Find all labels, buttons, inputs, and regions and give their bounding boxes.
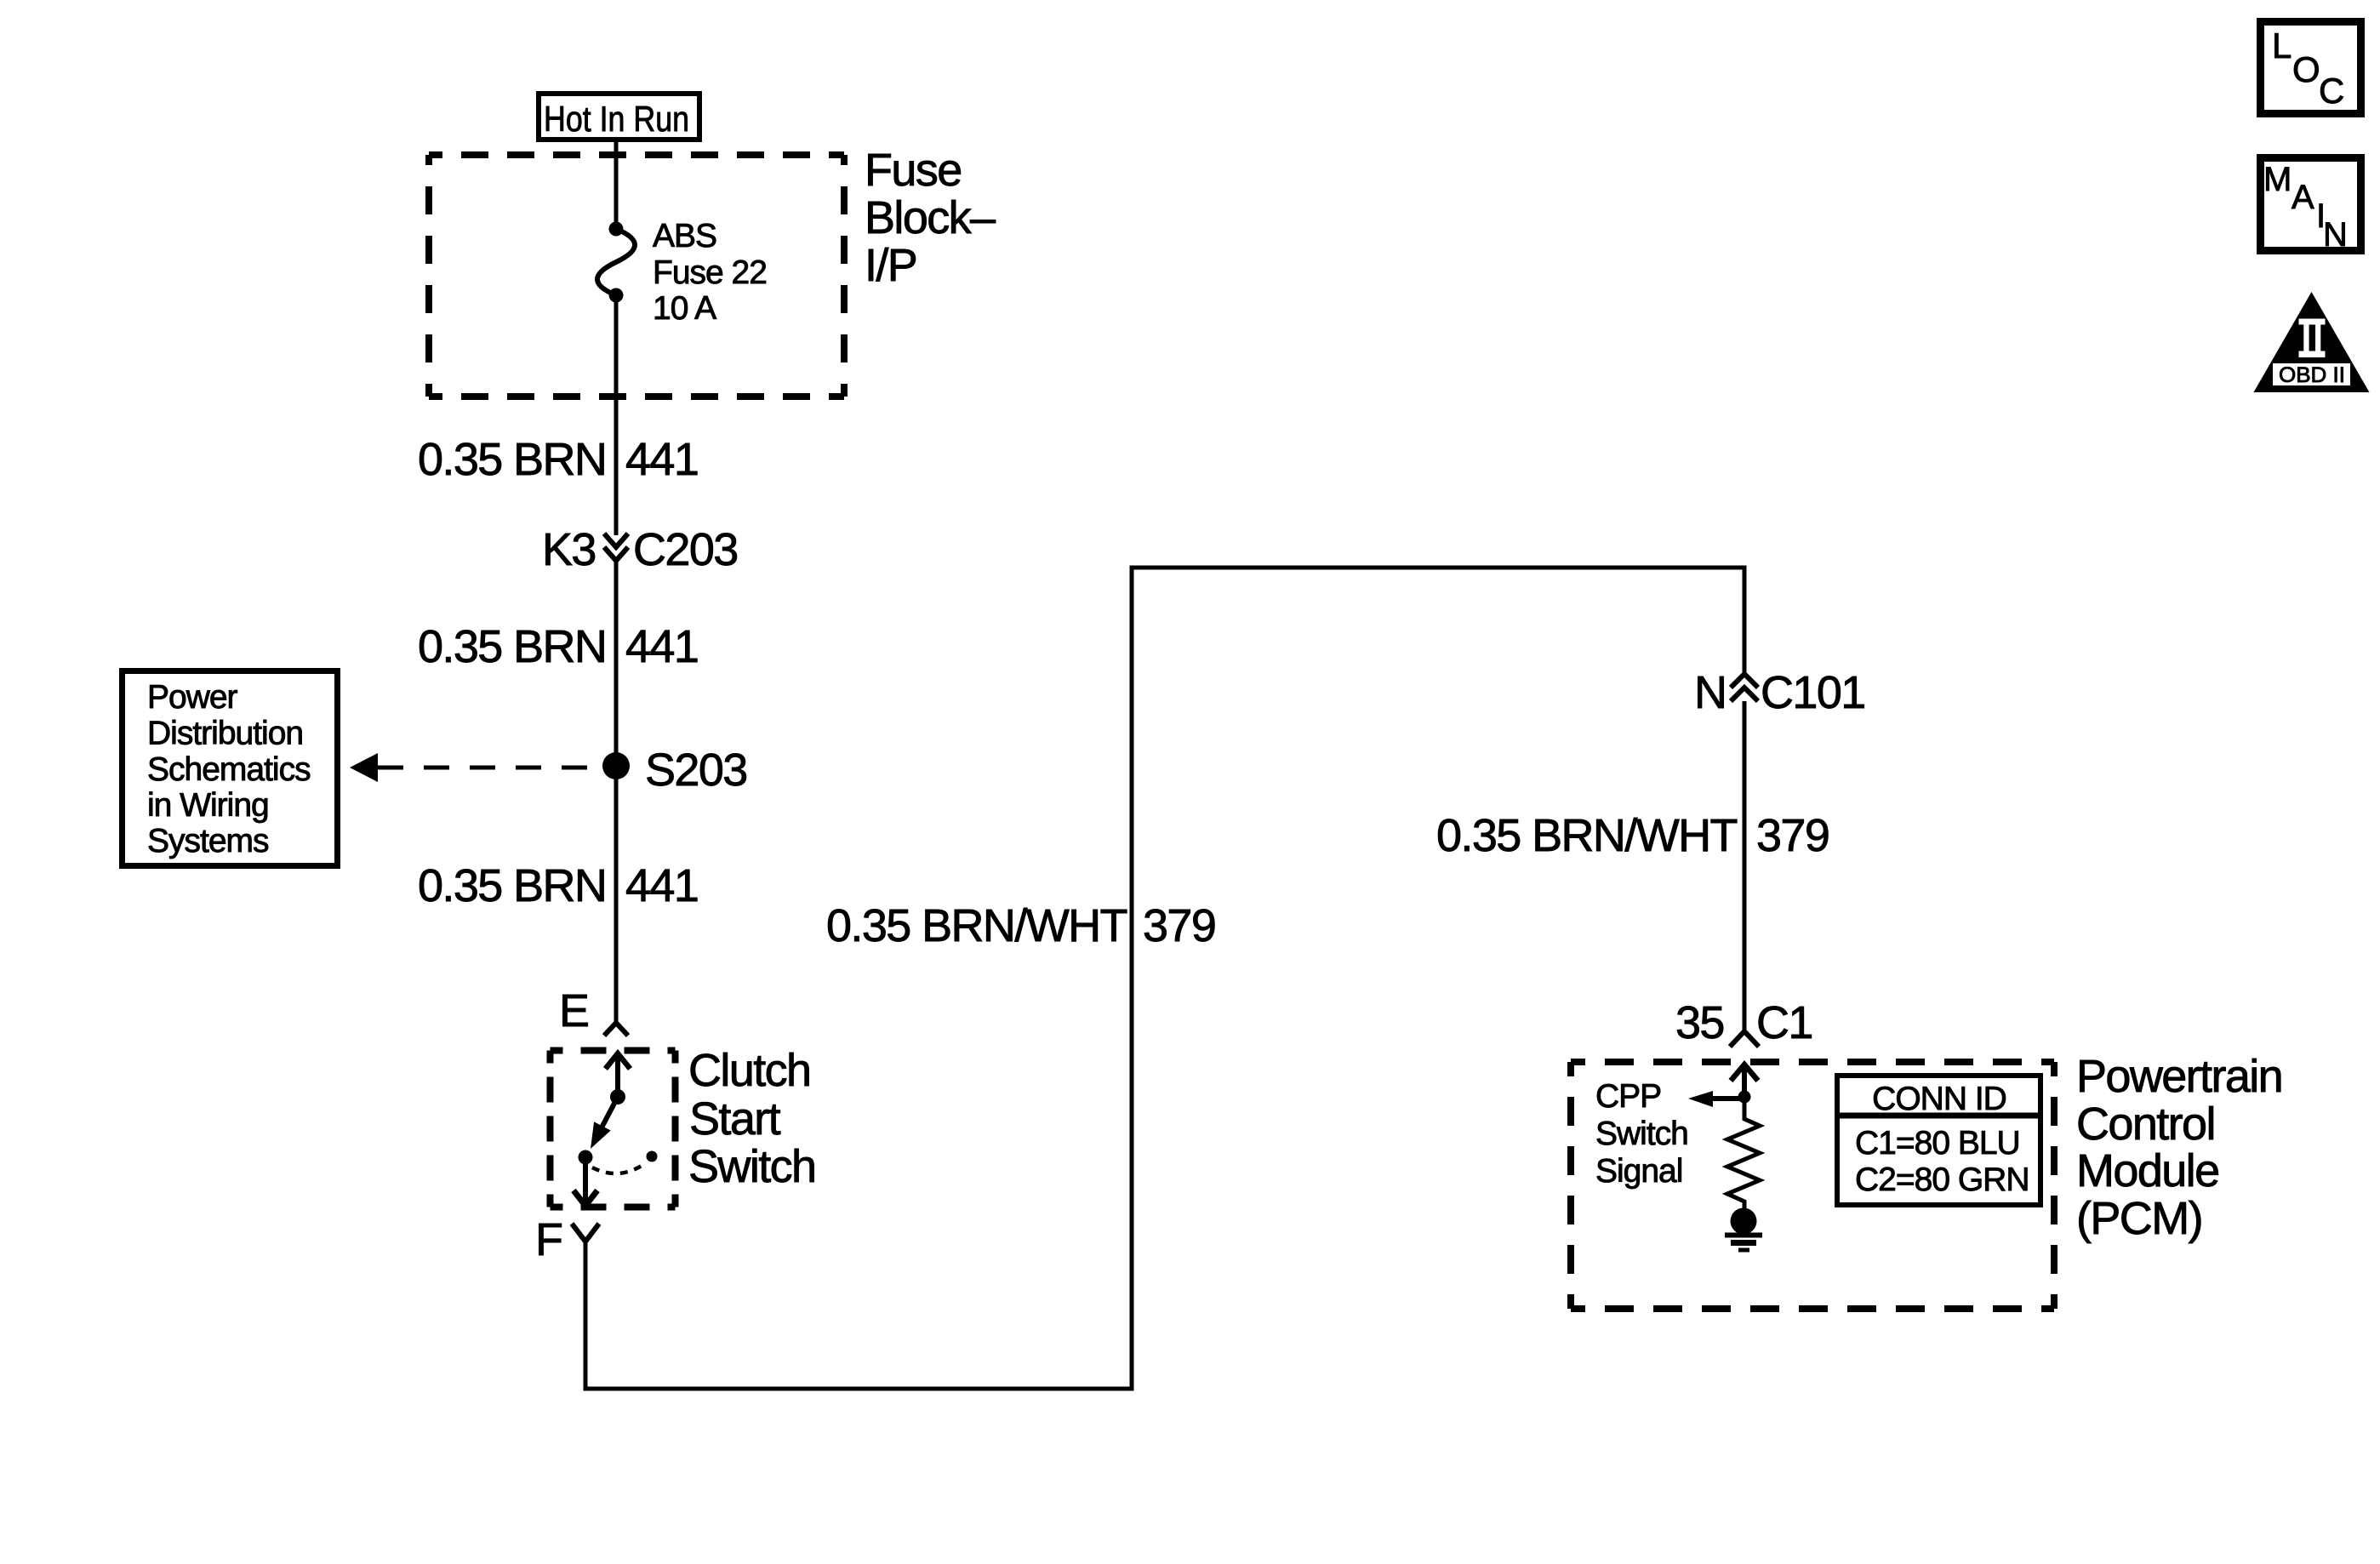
svg-text:0.35 BRN/WHT: 0.35 BRN/WHT bbox=[826, 900, 1127, 951]
ground terminal dot bbox=[1731, 1208, 1757, 1235]
fuse F22 terminal dot top bbox=[609, 222, 624, 237]
MAIN icon box bbox=[2261, 158, 2361, 251]
svg-text:10 A: 10 A bbox=[653, 290, 716, 327]
svg-text:Distribution: Distribution bbox=[147, 716, 303, 752]
svg-text:441: 441 bbox=[625, 434, 698, 485]
resistor R (pull-up inside PCM) bbox=[1727, 1099, 1760, 1210]
svg-text:0.35 BRN/WHT: 0.35 BRN/WHT bbox=[1436, 810, 1737, 861]
svg-text:I/P: I/P bbox=[865, 240, 916, 291]
connector C203 pin K3 (double chevron) bbox=[604, 534, 628, 561]
splice S203 junction dot bbox=[602, 752, 630, 779]
wire: C203 to splice S203 bbox=[614, 561, 619, 754]
svg-text:E: E bbox=[559, 985, 588, 1036]
fuse F22 element (S-curve) bbox=[597, 229, 635, 295]
svg-text:Hot In Run: Hot In Run bbox=[544, 99, 689, 139]
svg-text:C2=80 GRN: C2=80 GRN bbox=[1855, 1162, 2029, 1198]
svg-text:Switch: Switch bbox=[1595, 1116, 1688, 1152]
connector C1 pin 35 chevron bbox=[1730, 1031, 1759, 1047]
MAIN letters bbox=[2263, 161, 2348, 254]
LOC icon box bbox=[2261, 22, 2361, 114]
wire: down to connector C101 bbox=[1743, 566, 1747, 676]
svg-text:Powertrain: Powertrain bbox=[2076, 1051, 2282, 1102]
wire: S203 to clutch start switch terminal E bbox=[614, 778, 619, 1022]
svg-text:Systems: Systems bbox=[147, 823, 269, 859]
reference box text bbox=[147, 679, 311, 859]
svg-text:441: 441 bbox=[625, 860, 698, 911]
OBD II label plate bbox=[2273, 363, 2350, 385]
svg-text:in Wiring: in Wiring bbox=[147, 787, 269, 824]
svg-text:ABS: ABS bbox=[653, 218, 716, 254]
svg-text:Module: Module bbox=[2076, 1145, 2219, 1196]
svg-text:Control: Control bbox=[2076, 1099, 2215, 1150]
wire: bottom horizontal run bbox=[584, 1387, 1134, 1391]
svg-text:(PCM): (PCM) bbox=[2076, 1193, 2202, 1244]
svg-text:0.35 BRN: 0.35 BRN bbox=[418, 434, 606, 485]
PCM input arrow (up toward pin 35) bbox=[1731, 1065, 1758, 1093]
LOC letters bbox=[2272, 26, 2344, 111]
svg-text:O: O bbox=[2292, 49, 2320, 89]
svg-text:L: L bbox=[2272, 26, 2292, 66]
reference box "Power Distribution Schematics in Wiring Systems" bbox=[123, 671, 338, 866]
svg-text:C1: C1 bbox=[1756, 997, 1812, 1048]
dashed reference arrow from S203 to reference box bbox=[350, 753, 378, 782]
fuse block dashed box (Fuse Block-I/P) bbox=[429, 155, 844, 397]
svg-text:C: C bbox=[2319, 71, 2344, 111]
OBD II roman numeral bbox=[2299, 319, 2326, 358]
switch upper terminal arrow (to E) bbox=[606, 1053, 631, 1093]
switch alternate position dashed arc bbox=[592, 1164, 644, 1173]
connector C101 pin N (double chevron) bbox=[1731, 674, 1758, 701]
PCM dashed box bbox=[1571, 1062, 2054, 1309]
svg-text:C203: C203 bbox=[633, 524, 738, 575]
PCM label bbox=[2076, 1051, 2282, 1244]
svg-text:Power: Power bbox=[147, 679, 238, 716]
svg-text:N: N bbox=[2323, 216, 2348, 254]
wire: F down from switch bbox=[584, 1241, 588, 1391]
svg-text:C101: C101 bbox=[1761, 667, 1865, 718]
svg-text:M: M bbox=[2263, 161, 2292, 198]
switch pivot dot bbox=[610, 1089, 625, 1105]
svg-text:Start: Start bbox=[689, 1093, 781, 1144]
svg-text:K3: K3 bbox=[542, 524, 596, 575]
fuse F22 terminal dot bottom bbox=[609, 288, 624, 303]
svg-text:Signal: Signal bbox=[1595, 1153, 1682, 1190]
svg-text:CPP: CPP bbox=[1595, 1078, 1661, 1115]
svg-text:OBD II: OBD II bbox=[2279, 363, 2345, 387]
power source label box "Hot In Run" bbox=[539, 94, 699, 140]
switch blade arrowhead bbox=[591, 1122, 611, 1149]
wire: Hot In Run to fuse bbox=[614, 140, 619, 225]
svg-text:CONN ID: CONN ID bbox=[1872, 1081, 2006, 1117]
svg-text:0.35 BRN: 0.35 BRN bbox=[418, 621, 606, 672]
CONN ID table header separator bbox=[1837, 1113, 2040, 1119]
ground symbol bbox=[1725, 1236, 1762, 1251]
svg-text:379: 379 bbox=[1143, 900, 1215, 951]
fuse value label "ABS Fuse 22 10 A" bbox=[653, 218, 767, 327]
svg-text:0.35 BRN: 0.35 BRN bbox=[418, 860, 606, 911]
terminal F connector chevron bbox=[572, 1224, 599, 1241]
svg-text:N: N bbox=[1694, 667, 1726, 718]
svg-text:35: 35 bbox=[1675, 997, 1724, 1048]
clutch start switch label bbox=[688, 1045, 815, 1192]
terminal E connector chevron bbox=[604, 1023, 628, 1036]
clutch start switch dashed box bbox=[551, 1051, 676, 1207]
svg-text:Schematics: Schematics bbox=[147, 751, 311, 788]
svg-text:Fuse: Fuse bbox=[865, 145, 962, 196]
node: CPP signal junction dot bbox=[1738, 1091, 1751, 1104]
svg-text:C1=80 BLU: C1=80 BLU bbox=[1855, 1125, 2020, 1162]
svg-text:S203: S203 bbox=[645, 745, 747, 796]
switch blade with arrowhead bbox=[601, 1097, 618, 1129]
svg-text:Clutch: Clutch bbox=[688, 1045, 810, 1096]
wire: C101 to PCM connector C1 bbox=[1743, 701, 1747, 1032]
CPP switch signal arrow (left) bbox=[1712, 1096, 1744, 1101]
fuse block label bbox=[865, 145, 996, 291]
svg-text:F: F bbox=[535, 1214, 562, 1265]
svg-text:Switch: Switch bbox=[688, 1141, 815, 1192]
svg-text:A: A bbox=[2292, 179, 2314, 216]
svg-text:441: 441 bbox=[625, 621, 698, 672]
CONN ID table box bbox=[1837, 1076, 2040, 1205]
wire: left vertical run up bbox=[1130, 566, 1134, 1391]
svg-text:Block–: Block– bbox=[865, 192, 996, 243]
svg-text:379: 379 bbox=[1756, 810, 1829, 861]
switch alternate contact dot bbox=[647, 1151, 658, 1162]
wire: top horizontal run bbox=[1130, 566, 1747, 570]
svg-text:Fuse 22: Fuse 22 bbox=[653, 254, 767, 291]
OBD II triangle icon bbox=[2254, 292, 2370, 392]
CPP signal label bbox=[1595, 1078, 1688, 1190]
wire: fuse to connector C203 bbox=[614, 300, 619, 535]
switch lower terminal arrow (to F) bbox=[574, 1164, 597, 1206]
switch lower-left contact dot bbox=[579, 1150, 593, 1165]
